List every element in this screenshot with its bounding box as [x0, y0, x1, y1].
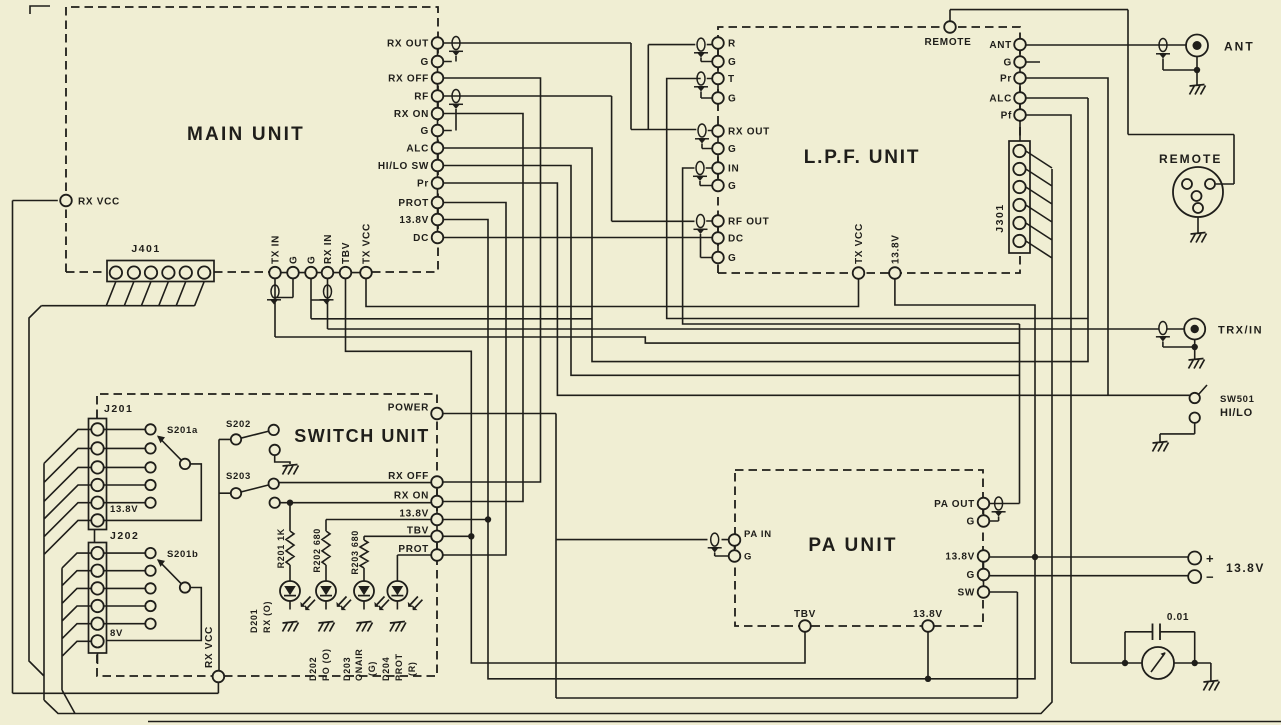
svg-text:TBV: TBV — [794, 609, 816, 620]
svg-text:R: R — [728, 39, 736, 50]
svg-text:DC: DC — [413, 233, 429, 244]
svg-text:RX ON: RX ON — [394, 491, 429, 502]
svg-text:HI/LO SW: HI/LO SW — [378, 161, 429, 172]
svg-text:G: G — [967, 517, 975, 528]
svg-text:PA OUT: PA OUT — [934, 499, 975, 510]
svg-text:RF: RF — [414, 92, 429, 103]
svg-text:−: − — [1206, 570, 1214, 585]
svg-text:PA IN: PA IN — [744, 529, 772, 540]
svg-text:RX VCC: RX VCC — [204, 626, 215, 668]
svg-text:S202: S202 — [226, 419, 251, 430]
svg-text:13.8V: 13.8V — [399, 215, 429, 226]
svg-text:D203: D203 — [342, 657, 352, 681]
svg-text:PROT: PROT — [394, 653, 404, 681]
svg-text:J202: J202 — [110, 530, 139, 542]
svg-text:G: G — [421, 57, 429, 68]
svg-text:J401: J401 — [131, 243, 160, 255]
svg-text:RX OUT: RX OUT — [387, 39, 429, 50]
svg-text:TRX/IN: TRX/IN — [1218, 325, 1263, 337]
svg-text:S201b: S201b — [167, 549, 199, 560]
svg-text:G: G — [728, 181, 736, 192]
svg-text:PROT: PROT — [398, 198, 429, 209]
svg-text:SW: SW — [957, 588, 975, 599]
svg-text:D204: D204 — [381, 657, 391, 681]
svg-text:(G): (G) — [367, 661, 377, 676]
svg-text:RX OFF: RX OFF — [388, 74, 429, 85]
svg-text:G: G — [728, 144, 736, 155]
svg-text:RX (O): RX (O) — [262, 601, 272, 633]
svg-text:13.8V: 13.8V — [890, 234, 901, 264]
svg-text:REMOTE: REMOTE — [1159, 152, 1222, 166]
svg-text:0.01: 0.01 — [1167, 612, 1189, 623]
svg-text:ANT: ANT — [989, 40, 1012, 51]
svg-text:Pr: Pr — [1000, 74, 1012, 85]
svg-text:MAIN UNIT: MAIN UNIT — [187, 124, 305, 145]
svg-text:13.8V: 13.8V — [913, 609, 943, 620]
svg-text:DC: DC — [728, 234, 744, 245]
svg-text:G: G — [967, 570, 975, 581]
svg-text:IN: IN — [728, 164, 739, 175]
svg-text:G: G — [307, 256, 318, 264]
svg-text:PO (O): PO (O) — [321, 648, 331, 681]
svg-text:13.8V: 13.8V — [1226, 561, 1265, 575]
svg-text:13.8V: 13.8V — [110, 504, 138, 515]
svg-text:RX IN: RX IN — [323, 234, 334, 264]
svg-text:RX OUT: RX OUT — [728, 127, 770, 138]
svg-text:S203: S203 — [226, 471, 251, 482]
svg-text:R201 1K: R201 1K — [276, 528, 286, 568]
svg-text:J301: J301 — [994, 203, 1006, 232]
svg-text:TBV: TBV — [407, 525, 429, 536]
svg-text:T: T — [728, 74, 735, 85]
svg-text:HI/LO: HI/LO — [1220, 407, 1253, 419]
svg-text:ONAIR: ONAIR — [354, 649, 364, 682]
svg-text:ALC: ALC — [989, 94, 1012, 105]
svg-text:S201a: S201a — [167, 425, 198, 436]
svg-text:SW501: SW501 — [1220, 394, 1255, 405]
svg-text:Pr: Pr — [417, 179, 429, 190]
svg-text:+: + — [1206, 551, 1214, 566]
svg-text:RX ON: RX ON — [394, 109, 429, 120]
svg-text:RF OUT: RF OUT — [728, 217, 769, 228]
svg-text:TX VCC: TX VCC — [362, 223, 373, 264]
svg-text:SWITCH UNIT: SWITCH UNIT — [294, 426, 430, 446]
svg-text:L.P.F. UNIT: L.P.F. UNIT — [804, 147, 921, 168]
svg-text:13.8V: 13.8V — [399, 509, 429, 520]
svg-text:G: G — [421, 126, 429, 137]
svg-text:(R): (R) — [407, 661, 417, 676]
svg-text:G: G — [744, 552, 752, 563]
svg-text:G: G — [728, 57, 736, 68]
svg-text:Pf: Pf — [1001, 111, 1012, 122]
svg-text:G: G — [728, 94, 736, 105]
svg-text:POWER: POWER — [388, 403, 429, 414]
svg-text:8V: 8V — [110, 628, 123, 639]
svg-text:REMOTE: REMOTE — [925, 37, 972, 48]
svg-text:RX OFF: RX OFF — [388, 471, 429, 482]
svg-text:TX VCC: TX VCC — [854, 223, 865, 264]
svg-text:J201: J201 — [104, 403, 133, 415]
svg-text:G: G — [728, 253, 736, 264]
svg-text:G: G — [1004, 58, 1012, 69]
svg-text:D202: D202 — [308, 657, 318, 681]
svg-text:PROT: PROT — [398, 544, 429, 555]
svg-text:13.8V: 13.8V — [945, 552, 975, 563]
svg-text:D201: D201 — [249, 609, 259, 633]
svg-text:G: G — [289, 256, 300, 264]
svg-text:TBV: TBV — [341, 242, 352, 264]
svg-text:ANT: ANT — [1224, 40, 1255, 54]
svg-text:R203 680: R203 680 — [350, 530, 360, 575]
svg-text:ALC: ALC — [406, 144, 429, 155]
svg-text:RX VCC: RX VCC — [78, 197, 120, 208]
svg-text:TX IN: TX IN — [271, 235, 282, 264]
svg-text:PA UNIT: PA UNIT — [808, 535, 897, 556]
svg-text:R202 680: R202 680 — [312, 528, 322, 573]
